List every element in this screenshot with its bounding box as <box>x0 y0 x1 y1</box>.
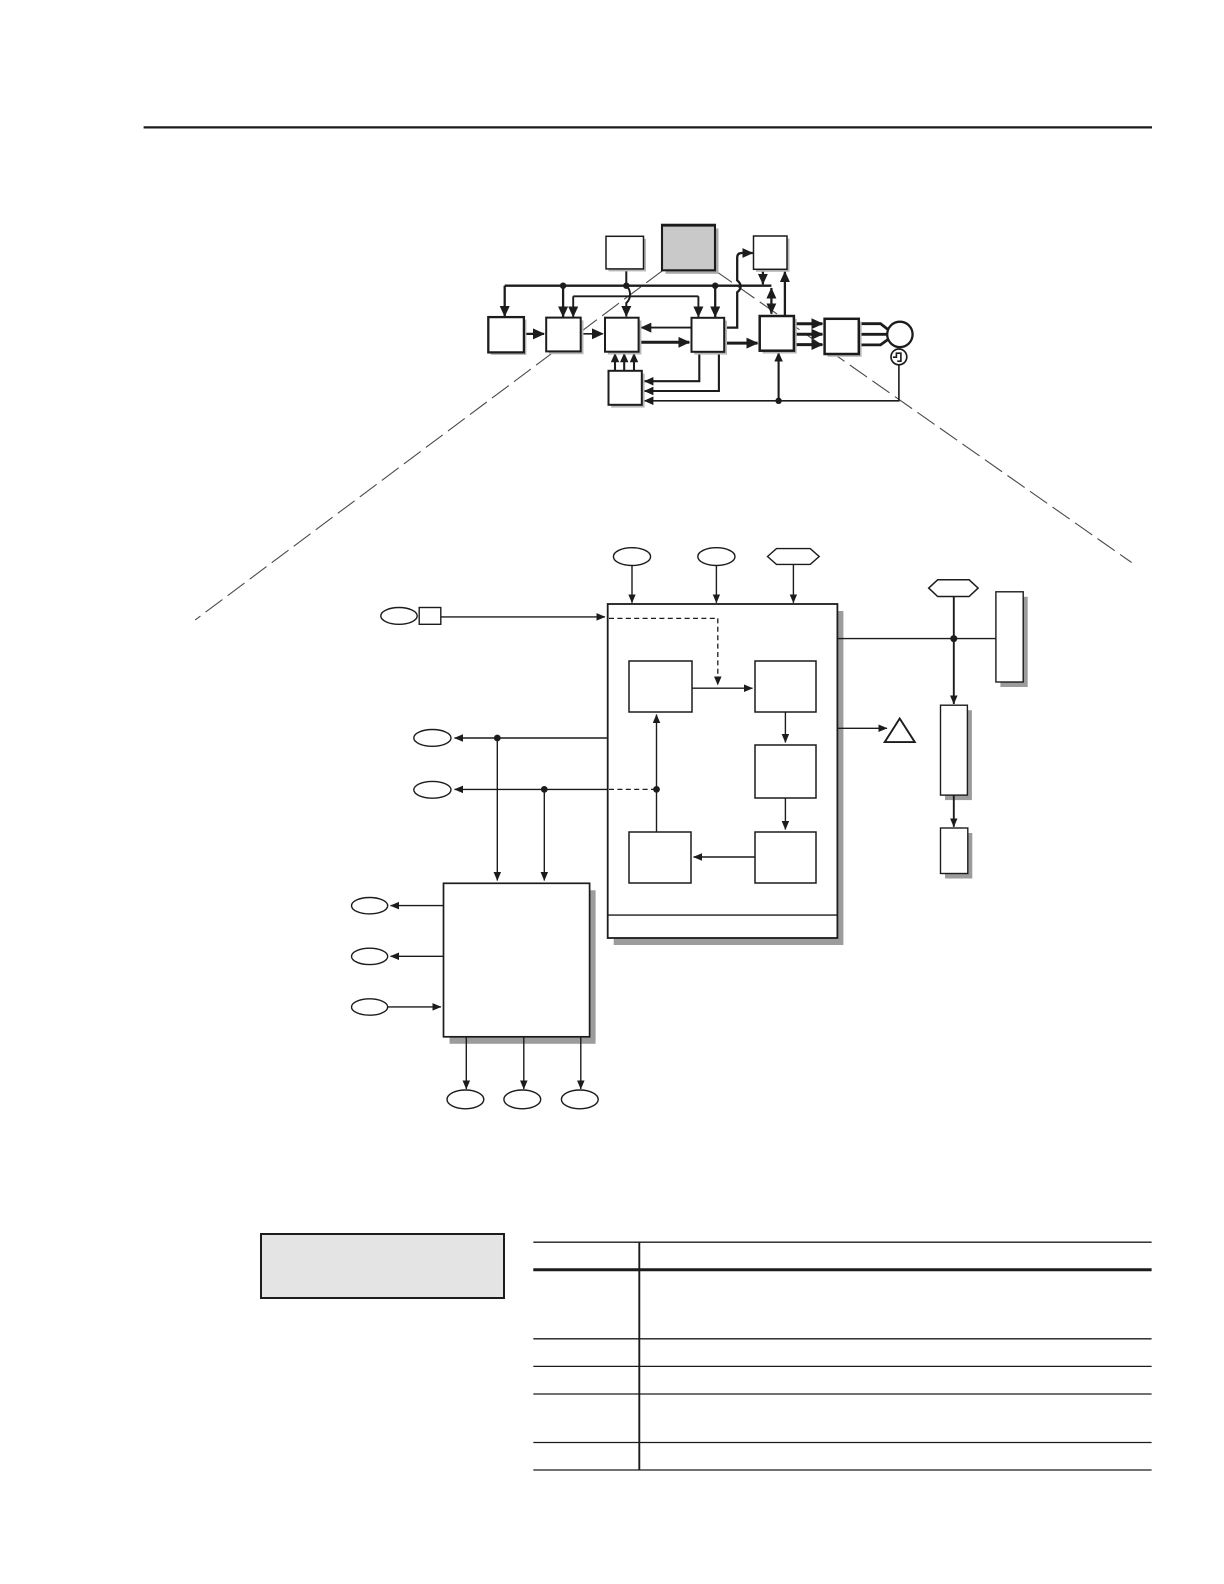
wire: lower box to terminal LL1 <box>391 905 444 907</box>
inner block 3 (middle right) <box>755 745 816 798</box>
magnifier callout line left (dashed) <box>195 270 663 620</box>
block G (inverter) <box>825 319 862 357</box>
wire: lower box down to terminal BB1 <box>465 1037 467 1089</box>
wire: D to F thick arrow <box>724 342 757 345</box>
wire: D bottom to E input 2 <box>644 352 719 391</box>
node: junction W1 stem on bus <box>623 283 629 289</box>
wire: junction down into box V1 <box>953 639 955 704</box>
wire: lower box to terminal LL2 <box>391 955 444 957</box>
wire: inner1 to inner2 <box>692 687 753 689</box>
hexagon HX2 (right) <box>929 580 978 597</box>
terminal ellipse LL3 <box>352 999 388 1015</box>
wire: stem from box W1 to bus <box>625 269 627 286</box>
wire: E to C arrow 2 <box>623 353 625 371</box>
big box footer separator <box>608 914 838 916</box>
block F <box>760 316 797 354</box>
table header thick rule <box>533 1268 1151 1271</box>
warning triangle <box>885 719 915 743</box>
wire: B to C arrow <box>581 333 603 335</box>
wire: feedback up into F bottom <box>778 353 780 401</box>
wire: inner3 to inner4 <box>784 798 786 830</box>
wire: lower box down to terminal BB2 <box>523 1037 525 1089</box>
wire: upper line B to D (left drop into B) <box>572 296 574 317</box>
table rule row 4 <box>533 1393 1151 1395</box>
encoder pulse glyph <box>893 353 901 361</box>
wire: squiggle hop from bus down into block C <box>626 286 630 317</box>
wire: F to G phase 3 thick <box>794 343 823 346</box>
wire: HX2 stem down <box>953 597 955 639</box>
wire: E to C arrow 1 <box>614 353 616 371</box>
wire: upper line B to D (horizontal) <box>573 295 698 297</box>
table bottom rule <box>533 1469 1151 1471</box>
wire: NV into big box <box>441 616 605 618</box>
wire: dashed internal mid horizontal <box>609 788 657 790</box>
block E (feedback box) <box>609 371 645 408</box>
wire: inner4 to inner5 <box>694 856 756 858</box>
magnifier callout line right (dashed) <box>715 270 1132 562</box>
big box (main control board) <box>608 604 844 945</box>
wire: C to D thick arrow <box>639 341 690 344</box>
block H (top right small box) <box>754 236 790 272</box>
node: feedback junction below F <box>775 398 781 404</box>
block V2 (small box below V1) <box>941 828 973 879</box>
terminal ellipse T2 (top input 2) <box>698 548 735 566</box>
encoder circle <box>891 349 907 365</box>
terminal ellipse BB3 <box>561 1090 598 1109</box>
node: junction on L2 wire <box>541 786 548 793</box>
node: bus junction to block B <box>560 283 566 289</box>
terminal ellipse NV (left, with small square port) <box>381 608 441 625</box>
wire: A to B arrow <box>524 333 544 335</box>
block T (tall right box) <box>996 592 1028 687</box>
wire: inner2 to inner3 <box>784 712 786 743</box>
inner block 5 (bottom left) <box>629 832 691 883</box>
wire: E to C arrow 3 <box>633 353 635 371</box>
legend gray box <box>261 1234 504 1298</box>
wire: F to G phase 1 thick <box>794 322 823 325</box>
terminal ellipse LL1 <box>352 898 388 914</box>
wire: dashed internal vertical with arrow <box>717 618 719 685</box>
block W2 (gray highlighted box) <box>661 225 719 274</box>
inner block 1 (top left) <box>629 661 692 712</box>
block D <box>692 318 728 355</box>
wire: big box to terminal L2 <box>455 788 608 790</box>
hexagon HX1 (top input 3) <box>768 549 820 565</box>
wire: G to motor phase 3 <box>859 340 888 345</box>
wire: T1 into big box <box>631 566 633 603</box>
table rule row 5 <box>533 1442 1151 1444</box>
inner block 4 (bottom right) <box>755 832 816 883</box>
wire: bus down into block B <box>562 286 564 317</box>
header rule <box>144 126 1152 128</box>
wire: block F up to block H <box>784 272 786 317</box>
terminal ellipse L2 <box>414 781 451 798</box>
wire: bus left end down into block A <box>504 286 506 317</box>
node: junction on inner5-inner1 wire <box>653 786 660 793</box>
block C <box>605 318 641 355</box>
node: junction HX2 stem on T wire <box>950 635 957 642</box>
wire: F to G phase 2 thick <box>794 333 823 336</box>
wire: encoder feedback to E input 3 <box>644 365 899 401</box>
wire: G to motor phase 1 <box>859 324 888 330</box>
wire: G to motor phase 2 <box>859 333 888 336</box>
wire: block H down to bus <box>762 269 764 284</box>
lower left box (I/O board) <box>444 883 596 1044</box>
wire: junction down into lower box <box>543 789 545 880</box>
wire: T2 into big box <box>715 566 717 603</box>
table rule row 3 <box>533 1365 1151 1367</box>
wire: terminal LL3 into lower box <box>388 1006 441 1008</box>
wire: HX1 into big box <box>792 564 794 602</box>
wire: dashed internal top horizontal <box>609 617 718 619</box>
wire: bus to block F double arrow <box>770 288 772 314</box>
table top rule <box>533 1241 1151 1243</box>
table column divider <box>638 1242 640 1470</box>
wire: V1 to V2 <box>953 795 955 827</box>
inner block 2 (top right) <box>755 661 816 712</box>
wire: big box to warning triangle <box>837 727 887 729</box>
node: bus junction to block D <box>712 283 718 289</box>
wire: bus down into block D <box>714 286 716 317</box>
motor circle <box>887 322 912 347</box>
wire: block D right side up to block H (with hop over bus) <box>724 253 753 328</box>
table rule row 2 <box>533 1338 1151 1340</box>
wire: big box right to tall box T <box>837 638 996 640</box>
wire: D to C arrow <box>641 327 692 329</box>
wire: lower box down to terminal BB3 <box>580 1037 582 1089</box>
terminal ellipse BB2 <box>504 1090 541 1109</box>
terminal ellipse BB1 <box>447 1090 484 1109</box>
wire: main bus <box>505 285 772 287</box>
terminal ellipse L1 <box>414 730 451 747</box>
block A <box>488 317 526 355</box>
wire: upper line drop into D <box>697 296 699 317</box>
block W1 (small white box above bus) <box>606 236 646 271</box>
wire: junction down into lower box <box>496 738 498 881</box>
terminal ellipse LL2 <box>352 948 388 964</box>
wire: big box to terminal L1 <box>455 737 608 739</box>
block B <box>546 318 583 355</box>
terminal ellipse T1 (top input 1) <box>613 548 650 566</box>
block V1 (vertical box) <box>941 705 972 800</box>
wire: D bottom to E input 1 <box>644 352 699 381</box>
node: junction on L1 wire <box>494 735 501 742</box>
wire: inner5 to inner1 <box>656 715 658 833</box>
